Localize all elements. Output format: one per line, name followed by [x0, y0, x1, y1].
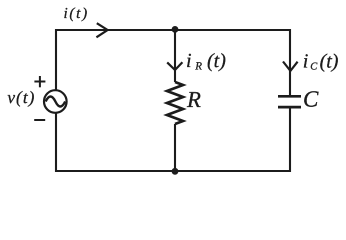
svg-text:(t): (t)	[207, 50, 226, 72]
svg-text:R: R	[186, 87, 201, 112]
svg-text:v(t): v(t)	[7, 88, 35, 107]
svg-text:(t): (t)	[320, 50, 339, 72]
svg-text:R: R	[194, 61, 202, 73]
svg-text:C: C	[303, 87, 319, 112]
svg-text:i: i	[186, 50, 192, 72]
svg-text:C: C	[310, 62, 318, 73]
svg-text:i: i	[303, 50, 309, 72]
svg-text:i(t): i(t)	[64, 5, 89, 22]
